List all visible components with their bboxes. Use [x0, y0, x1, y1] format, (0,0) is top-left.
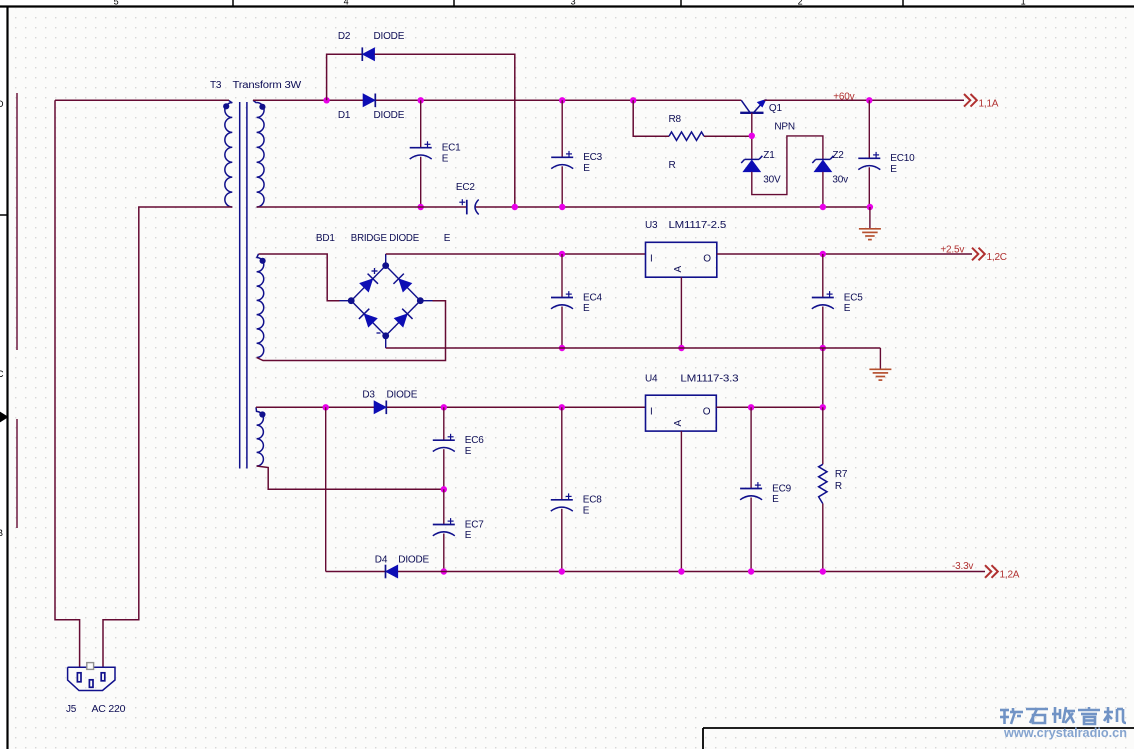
transformer T3 core: [240, 102, 247, 469]
svg-text:DIODE: DIODE: [387, 390, 418, 401]
svg-text:-3.3v: -3.3v: [952, 561, 973, 572]
wire D2 to C-rail: [375, 54, 515, 207]
svg-text:LM1117-2.5: LM1117-2.5: [669, 220, 727, 231]
node EC6-EC7 junction: [441, 486, 447, 492]
wire EC10 to ground: [869, 207, 871, 228]
wire Z2 anode: [822, 172, 824, 207]
svg-text:1: 1: [1021, 0, 1026, 7]
wire secondary1 top rail: [253, 99, 741, 101]
svg-text:EC4: EC4: [583, 292, 602, 303]
node EC8 bottom: [559, 568, 565, 574]
svg-text:E: E: [465, 446, 472, 457]
svg-text:BRIDGE DIODE: BRIDGE DIODE: [351, 233, 420, 244]
svg-text:www.crystalradio.cn: www.crystalradio.cn: [1003, 726, 1127, 740]
wire U4 adj: [680, 431, 682, 571]
node +60v EC10 top: [866, 97, 872, 103]
svg-text:EC1: EC1: [442, 143, 461, 154]
transformer T3 secondary 2 phase dot: [260, 258, 266, 264]
svg-text:DIODE: DIODE: [374, 110, 405, 121]
sheet zone letters left: [0, 99, 4, 538]
node U4 out R7 top: [820, 404, 826, 410]
bridge node left: [348, 297, 355, 304]
svg-text:E: E: [890, 164, 897, 175]
svg-text:O: O: [703, 253, 711, 264]
connector J5 label: [66, 704, 126, 715]
wire bridge right to winding2 bottom: [257, 301, 446, 361]
wire ground link to U4 output: [822, 348, 824, 407]
net label -3.3v: [952, 561, 973, 572]
svg-text:3: 3: [571, 0, 576, 7]
wire winding2 to bridge left: [259, 254, 340, 301]
node EC10 bottom: [867, 204, 873, 210]
zener Z1 value 30V: [763, 174, 781, 185]
transistor Q1 type NPN: [774, 122, 795, 133]
capacitor EC9: [740, 407, 791, 571]
node EC4 top: [559, 251, 565, 257]
capacitor EC8: [551, 407, 602, 571]
transformer T3 secondary 1 phase dot: [259, 104, 265, 110]
svg-text:R: R: [669, 160, 676, 171]
resistor R7 value R: [835, 481, 842, 492]
resistor R7: [819, 464, 827, 503]
svg-text:BD1: BD1: [316, 233, 335, 244]
bridge minus mark: [377, 332, 381, 334]
bridge node bottom: [382, 332, 389, 339]
svg-text:R8: R8: [669, 114, 682, 125]
svg-text:EC7: EC7: [465, 519, 484, 530]
bridge diode bottom-right: [394, 309, 412, 327]
bridge BD1 diamond: [340, 254, 433, 348]
ground middle section: [869, 369, 891, 380]
capacitor EC7: [433, 489, 484, 571]
svg-text:E: E: [444, 233, 451, 244]
wire Z1 anode jog: [752, 136, 823, 195]
svg-text:E: E: [583, 505, 590, 516]
diode D3: [374, 401, 386, 415]
transformer T3 secondary 3 phase dot: [259, 411, 265, 417]
transistor Q1: [740, 99, 766, 112]
wire U4 output: [716, 406, 823, 408]
node secondary1-D2 junction: [323, 97, 329, 103]
svg-text:T3: T3: [210, 80, 222, 91]
svg-text:1,2A: 1,2A: [1000, 570, 1020, 581]
transformer T3 primary winding: [225, 100, 232, 207]
capacitor EC3: [551, 100, 602, 207]
wire R8 left lead: [633, 100, 669, 136]
bridge diode top-left: [360, 274, 378, 292]
svg-text:EC5: EC5: [844, 292, 863, 303]
svg-text:5: 5: [114, 0, 119, 7]
node EC1 top: [418, 97, 424, 103]
capacitor EC4: [551, 254, 602, 348]
wire D4 branch: [325, 407, 327, 571]
svg-text:E: E: [583, 303, 590, 314]
svg-text:D4: D4: [375, 555, 388, 566]
resistor R8 value R: [669, 160, 676, 171]
wire left stub upper: [16, 93, 18, 350]
svg-text:LM1117-3.3: LM1117-3.3: [680, 374, 739, 385]
svg-text:2: 2: [798, 0, 803, 7]
wire middle ground rail: [386, 347, 881, 349]
svg-text:30V: 30V: [763, 174, 781, 185]
svg-text:U3: U3: [645, 220, 658, 231]
watermark Chinese characters: [1000, 707, 1126, 724]
svg-text:1,1A: 1,1A: [979, 98, 999, 109]
node EC8 top U4 in: [559, 404, 565, 410]
transistor Q1 label: [769, 103, 783, 114]
zener Z2 label: [832, 150, 844, 161]
capacitor EC5: [812, 254, 863, 348]
port 1,2C: [972, 248, 1007, 263]
wire primary left vertical: [55, 100, 80, 667]
sheet zone numbers top: [114, 0, 1026, 7]
watermark url: [1003, 726, 1127, 740]
diode D1 label: [338, 110, 405, 121]
svg-text:NPN: NPN: [774, 122, 795, 133]
wire left stub lower: [16, 419, 18, 528]
sheet border left: [0, 6, 8, 749]
node EC3 top: [559, 97, 565, 103]
regulator U3 label: [645, 220, 727, 231]
svg-text:E: E: [772, 494, 779, 505]
svg-text:EC9: EC9: [772, 483, 791, 494]
svg-text:B: B: [0, 528, 3, 538]
resistor R7 label: [835, 469, 848, 480]
node EC9 bottom: [748, 568, 754, 574]
node U3 adj rail: [678, 345, 684, 351]
wire D2 branch: [327, 54, 363, 100]
svg-text:1,2C: 1,2C: [987, 252, 1007, 263]
node EC6 top: [441, 404, 447, 410]
svg-text:E: E: [844, 303, 851, 314]
resistor R8 label: [669, 114, 682, 125]
diode D1: [363, 94, 375, 108]
bridge node top: [382, 262, 389, 269]
svg-text:DIODE: DIODE: [374, 31, 405, 42]
svg-text:R7: R7: [835, 469, 848, 480]
svg-text:E: E: [442, 153, 449, 164]
node EC9 top: [748, 404, 754, 410]
node EC7 bottom: [441, 568, 447, 574]
capacitor EC2: [456, 182, 479, 215]
svg-text:D2: D2: [338, 31, 351, 42]
zener Z1 label: [763, 150, 775, 161]
svg-text:Q1: Q1: [769, 103, 783, 114]
node D3 anode junction: [323, 404, 329, 410]
transformer T3 primary phase dot: [223, 103, 229, 109]
svg-text:+60v: +60v: [833, 91, 854, 102]
resistor R8: [669, 132, 704, 140]
svg-text:I: I: [650, 407, 653, 418]
svg-text:EC8: EC8: [583, 495, 602, 506]
node D2 bottom: [512, 204, 518, 210]
node EC1 bottom: [418, 204, 424, 210]
wire R7 bottom lead: [822, 504, 824, 572]
svg-text:4: 4: [344, 0, 349, 7]
svg-text:DIODE: DIODE: [398, 555, 429, 566]
svg-text:O: O: [703, 407, 711, 418]
capacitor EC1: [410, 100, 461, 207]
wire R7 top lead: [822, 407, 824, 464]
sheet border top: [0, 0, 1134, 7]
connector J5: [68, 663, 115, 691]
wire U3 adj: [680, 277, 682, 348]
svg-text:A: A: [673, 419, 684, 426]
svg-text:30v: 30v: [832, 174, 848, 185]
ground below EC10: [859, 229, 881, 240]
capacitor EC10: [858, 100, 915, 207]
svg-text:EC2: EC2: [456, 182, 475, 193]
net label +60v: [833, 91, 854, 102]
bridge plus mark: [372, 268, 378, 274]
svg-text:+2.5v: +2.5v: [940, 245, 964, 256]
wire bridge plus to U3: [386, 253, 646, 255]
zener Z2: [812, 156, 833, 172]
svg-text:I: I: [650, 253, 653, 264]
diode D3 label: [362, 390, 417, 401]
title block border: [703, 728, 1134, 749]
regulator U3: [646, 242, 717, 277]
bridge diode top-right: [393, 274, 411, 292]
svg-text:Z1: Z1: [763, 150, 775, 161]
diode D2 label: [338, 31, 405, 42]
node U3 out EC5 top: [820, 251, 826, 257]
node R7 bottom: [820, 568, 826, 574]
svg-text:J5: J5: [66, 704, 77, 715]
capacitor EC6: [433, 407, 484, 489]
svg-text:EC10: EC10: [890, 153, 915, 164]
svg-text:AC 220: AC 220: [92, 704, 126, 715]
transformer T3 secondary winding 3: [256, 407, 263, 466]
node U4 adj rail: [678, 568, 684, 574]
svg-text:EC6: EC6: [465, 435, 484, 446]
svg-text:EC3: EC3: [583, 152, 602, 163]
transformer T3 label: [210, 80, 302, 91]
wire winding3 bottom: [257, 466, 444, 489]
regulator U4: [646, 395, 717, 431]
bridge node right: [417, 297, 424, 304]
diode D4 label: [375, 555, 430, 566]
svg-text:E: E: [465, 530, 472, 541]
node Z2 anode rail: [820, 204, 826, 210]
svg-text:A: A: [673, 266, 684, 273]
diode D2: [362, 47, 374, 61]
node EC3 bottom: [559, 204, 565, 210]
port 1,2A: [985, 565, 1020, 580]
wire Q1 emitter to +60v rail: [764, 99, 964, 101]
svg-text:R: R: [835, 481, 842, 492]
node Q1 base junction: [749, 133, 755, 139]
cursor arrow left edge: [0, 412, 8, 422]
port 1,1A: [964, 94, 999, 109]
net label +2.5v: [940, 245, 964, 256]
wire C-rail: [257, 206, 870, 208]
wire primary bottom: [103, 207, 232, 667]
zener Z2 value 30v: [832, 174, 848, 185]
diode D4: [386, 565, 398, 579]
regulator U4 label: [645, 374, 739, 385]
zener Z1: [741, 156, 762, 172]
node EC5 bottom: [820, 345, 826, 351]
node EC4 bottom: [559, 345, 565, 351]
svg-text:Transform 3W: Transform 3W: [233, 80, 302, 91]
bridge diode bottom-left: [359, 309, 377, 327]
svg-text:E: E: [583, 163, 590, 174]
capacitor EC2 value E: [444, 233, 451, 244]
wire Q1 base stem: [751, 113, 753, 160]
svg-text:U4: U4: [645, 374, 658, 385]
transformer T3 secondary winding 2: [257, 254, 264, 357]
wire U3 output: [717, 253, 972, 255]
wire middle rail to ground: [879, 348, 881, 369]
svg-text:D3: D3: [362, 390, 375, 401]
transformer T3 secondary winding 1: [253, 100, 264, 207]
node R8 branch: [630, 97, 636, 103]
bridge BD1 label: [316, 233, 420, 244]
wire R8 right lead: [704, 135, 752, 137]
svg-text:D1: D1: [338, 110, 351, 121]
wire primary top: [55, 99, 229, 101]
svg-text:Z2: Z2: [832, 150, 844, 161]
wire winding3 top rail: [256, 406, 646, 408]
wire D4 rail: [326, 571, 985, 573]
